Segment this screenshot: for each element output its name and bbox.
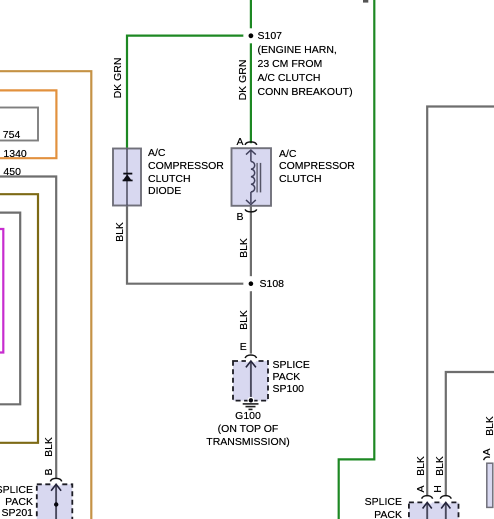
clutch coil internal arrow and coil	[246, 150, 256, 205]
pin A connector arc splice2	[422, 496, 433, 499]
wire olive box	[0, 194, 38, 443]
pin A connector arc	[245, 142, 257, 145]
diode D1 A/C compressor clutch diode box	[113, 149, 141, 206]
wire BLK clutch B to S108	[250, 206, 252, 284]
diode D1 symbol	[123, 173, 133, 182]
wire label BLK below S108	[238, 310, 250, 330]
wire green branch to diode DK GRN	[127, 36, 251, 149]
pin B label clutch	[237, 211, 244, 224]
wire label BLK clutch	[238, 238, 250, 258]
node 450 label	[3, 166, 21, 179]
pin A label splice2	[415, 485, 427, 492]
pin H connector arc splice2	[440, 496, 451, 499]
SP100 internal arrow	[246, 361, 256, 400]
pin E label SP100	[240, 341, 247, 354]
pin A label corner box	[481, 448, 493, 455]
node 754 label	[3, 129, 21, 142]
pin B label SP201	[43, 468, 55, 475]
pin B connector arc SP201	[50, 478, 61, 481]
ground G100 symbol	[243, 404, 259, 410]
pin H label splice2	[432, 485, 444, 493]
splice pack 2 label	[302, 496, 402, 519]
wire gray box B / wire to SP201	[0, 177, 56, 479]
wire label DK GRN center	[237, 59, 249, 100]
splice pack SP100 box	[233, 361, 268, 401]
wire label DK GRN left	[112, 58, 124, 99]
diode D1 label	[148, 147, 224, 198]
diode D1 internal wire	[126, 149, 128, 206]
connector box right edge	[487, 463, 493, 507]
wire green right vertical	[339, 0, 375, 519]
wire label BLK splice2 pin H	[434, 456, 446, 476]
splice pack SP201 box	[37, 484, 73, 519]
pin B connector arc	[245, 209, 257, 211]
node 1340 label	[3, 148, 26, 161]
splice pack SP100 label	[273, 359, 310, 395]
ground G100 label block	[148, 410, 348, 448]
top-right tick mark	[363, 0, 368, 3]
wire BLK S108 to SP100	[250, 284, 252, 354]
wire magenta box	[0, 229, 3, 353]
SP201 junction dot	[54, 502, 58, 506]
wire right gray inner	[446, 372, 494, 496]
node S107 junction dot	[243, 28, 258, 43]
wire BLK diode to S108	[127, 206, 251, 284]
wire label BLK corner box	[484, 416, 494, 436]
wire gray box C	[0, 213, 20, 405]
pin E connector arc	[245, 355, 256, 358]
wire label BLK diode	[114, 222, 126, 242]
node S108 label	[260, 278, 285, 291]
wire right gray outer	[427, 107, 494, 497]
splice pack SP201 label	[0, 485, 33, 519]
pin A label clutch	[237, 136, 244, 149]
wire label BLK SP201	[43, 437, 55, 457]
SP100 junction dot	[248, 397, 255, 404]
node S107 label block	[258, 29, 353, 99]
node 754 label box	[0, 108, 38, 141]
wire green main vertical DK GRN	[250, 0, 252, 143]
op-amp U1 A/C compressor clutch box	[232, 148, 272, 206]
node S108 junction dot	[243, 276, 258, 291]
splice2 internal arrows	[423, 502, 451, 519]
pin A connector arc corner	[484, 457, 490, 460]
SP201 internal arrow	[51, 484, 61, 519]
clutch U1 label	[279, 148, 355, 186]
wire orange box A	[0, 90, 56, 158]
clutch core bars	[257, 163, 260, 193]
wire label BLK splice2 pin A	[415, 456, 427, 476]
wire golden-outer harness line	[0, 71, 91, 519]
splice pack 2 box bottom right	[409, 502, 459, 519]
